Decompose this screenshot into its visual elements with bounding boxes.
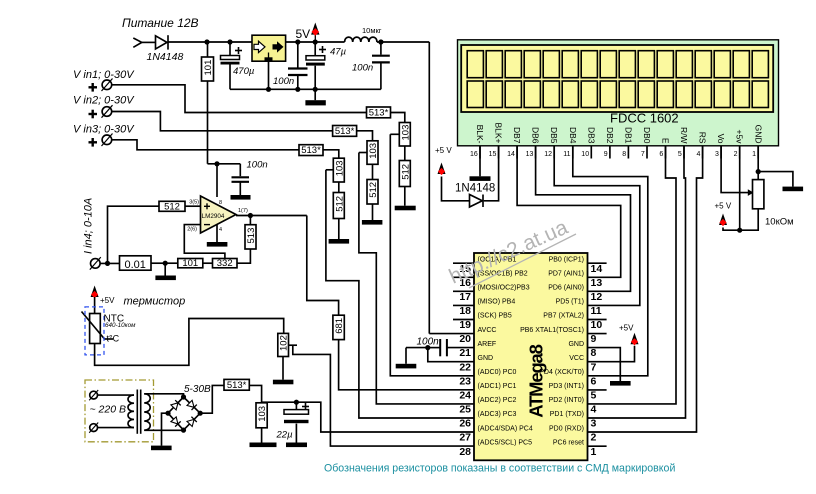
svg-text:DB0: DB0	[642, 127, 652, 144]
capacitor C1 470u plates	[221, 56, 240, 65]
svg-text:22: 22	[459, 361, 471, 373]
junction shunt input	[105, 261, 110, 266]
MCU pin 13	[548, 271, 602, 289]
wire V in1 to R1	[112, 85, 367, 113]
LCD pin 1 GND	[752, 125, 763, 159]
wire R6 to R7	[372, 164, 374, 179]
svg-text:103: 103	[368, 143, 379, 159]
plus mark V in1	[89, 83, 98, 92]
svg-text:GND: GND	[478, 355, 494, 362]
plus mark C1	[235, 47, 242, 54]
MCU pin 3	[550, 411, 597, 429]
svg-text:GND: GND	[568, 341, 584, 348]
wire thermistor tap to ADC5 pin28	[289, 345, 475, 446]
svg-text:10: 10	[591, 319, 603, 331]
svg-text:Питание 12В: Питание 12В	[122, 16, 199, 30]
capacitor C1 470u stems	[229, 42, 231, 56]
svg-text:AREF: AREF	[478, 341, 497, 348]
svg-text:+5v: +5v	[735, 130, 745, 145]
svg-text:6: 6	[659, 151, 663, 158]
svg-text:ATMega8: ATMega8	[526, 344, 547, 417]
svg-text:R/W: R/W	[679, 127, 689, 144]
svg-text:(ADC4/SDA) PC4: (ADC4/SDA) PC4	[478, 425, 533, 432]
svg-text:10мкг: 10мкг	[362, 26, 382, 35]
MCU pin 5	[549, 383, 607, 401]
svg-text:1N4148: 1N4148	[147, 51, 184, 63]
svg-text:DB6: DB6	[531, 127, 541, 144]
ground R15	[250, 428, 277, 447]
LCD pin 6 E	[659, 138, 670, 159]
svg-text:DB7: DB7	[512, 127, 522, 144]
LCD pin 10 DB3	[581, 127, 596, 159]
wire R14 to R15 top	[249, 385, 261, 402]
svg-text:23: 23	[459, 375, 471, 387]
wire VCC node to op-amp pin8	[216, 164, 218, 197]
wire pin7 VCC to +5V flag	[588, 346, 635, 362]
junction bridge bottom	[181, 428, 186, 433]
junction R13 gnd node	[163, 261, 168, 266]
resistor R2 513*	[333, 126, 357, 138]
resistor R4 103	[399, 123, 411, 147]
wire R12 to R11	[237, 249, 250, 263]
capacitor C6 22u plates	[284, 410, 309, 424]
wire V in3 to R3	[112, 140, 299, 150]
svg-text:8: 8	[622, 151, 626, 158]
svg-text:5V: 5V	[296, 27, 311, 41]
inductor L1 10mkg	[345, 37, 377, 42]
svg-text:15: 15	[489, 151, 497, 158]
LCD pin 2 +5v	[734, 130, 745, 159]
junction bridge right	[198, 411, 203, 416]
svg-text:6: 6	[591, 375, 597, 387]
diode D2 1N4148 backlight	[470, 195, 484, 208]
MCU pin 17	[453, 285, 530, 303]
svg-text:103: 103	[334, 160, 345, 176]
potentiometer wiper arrow	[748, 189, 754, 196]
svg-text:1(7): 1(7)	[238, 208, 248, 214]
svg-text:2(6): 2(6)	[187, 227, 197, 233]
wire BLK+ to diode D2	[484, 146, 499, 201]
wire sense node to ADC4 pin27	[262, 402, 474, 432]
regulator U2 5V	[252, 35, 286, 61]
connector V in1	[102, 79, 113, 92]
capacitor C3 47u stems	[314, 42, 316, 56]
wire R10 to op-amp plus	[185, 205, 201, 207]
svg-text:9: 9	[604, 151, 608, 158]
resistor R14 513*	[224, 379, 249, 391]
svg-text:12: 12	[591, 291, 603, 303]
svg-text:1N4148: 1N4148	[455, 183, 495, 195]
capacitor C7 100n AREF	[428, 339, 474, 356]
wire R8 to R9	[338, 182, 340, 193]
svg-text:(ADC5/SCL) PC5: (ADC5/SCL) PC5	[478, 439, 533, 446]
svg-text:13: 13	[526, 151, 534, 158]
svg-text:22µ: 22µ	[276, 430, 294, 441]
svg-text:5: 5	[591, 390, 597, 402]
wire AREF node to pin22 GND	[428, 348, 474, 362]
MCU pin 9	[520, 327, 607, 345]
svg-text:PD6 (AIN0): PD6 (AIN0)	[548, 285, 584, 292]
svg-text:PD7 (AIN1): PD7 (AIN1)	[548, 271, 584, 278]
ground R102	[273, 357, 294, 385]
MCU pin 19	[453, 313, 512, 331]
wire op-amp minus feedback	[184, 225, 225, 259]
svg-text:(ADC0) PC0: (ADC0) PC0	[478, 369, 517, 376]
svg-text:103: 103	[257, 406, 268, 422]
MCU pin 24	[459, 383, 516, 401]
junction bridge left	[165, 411, 170, 416]
svg-text:+5 V: +5 V	[715, 202, 732, 211]
resistor R10 512 input	[159, 201, 185, 212]
svg-text:513: 513	[246, 228, 257, 244]
svg-text:1: 1	[752, 151, 756, 158]
node op-amp VCC junction	[214, 161, 219, 166]
svg-text:PD2 (INT0): PD2 (INT0)	[549, 397, 584, 404]
LCD module FDCC 1602	[458, 40, 779, 146]
svg-text:640-10ком: 640-10ком	[105, 322, 136, 329]
svg-text:1: 1	[591, 446, 597, 458]
wire op-amp output to R681	[307, 216, 339, 316]
svg-text:20: 20	[459, 333, 471, 345]
capacitor C5 100n stem	[239, 164, 241, 176]
svg-text:PB0 (ICP1): PB0 (ICP1)	[549, 256, 584, 263]
LCD pin 15 BLK+	[489, 122, 504, 158]
LCD pin 5 R/W	[678, 127, 689, 159]
svg-text:5-30В: 5-30В	[184, 384, 211, 395]
svg-text:17: 17	[459, 291, 471, 303]
diode D1 1N4148	[156, 35, 169, 49]
resistor R1 513*	[367, 107, 391, 119]
svg-text:47µ: 47µ	[330, 47, 347, 58]
wire 0.01 to gnd node	[151, 262, 165, 264]
junction 47u top	[313, 39, 318, 44]
svg-text:V in3; 0-30V: V in3; 0-30V	[73, 124, 135, 136]
LCD pin 3 Vo	[715, 134, 726, 159]
ground bridge minus	[151, 413, 172, 450]
svg-text:8: 8	[219, 200, 222, 206]
svg-text:I in4; 0-10A: I in4; 0-10A	[83, 198, 95, 254]
wire tap chain1 to ADC0 pin23	[390, 134, 474, 375]
wire R101 down to op-amp VCC node	[207, 81, 209, 164]
resistor R681	[333, 315, 345, 339]
junction AREF	[425, 345, 430, 350]
svg-text:+5V: +5V	[619, 324, 634, 333]
svg-text:PD5 (T1): PD5 (T1)	[556, 299, 584, 306]
svg-text:(MISO) PB4: (MISO) PB4	[478, 299, 516, 306]
wire secondary bottom to bridge	[144, 429, 183, 431]
plus mark C3	[319, 46, 326, 53]
svg-text:513*: 513*	[301, 145, 321, 156]
wire Vo to potentiometer wiper	[721, 146, 748, 193]
svg-text:470µ: 470µ	[233, 66, 255, 77]
svg-text:21: 21	[459, 347, 471, 359]
MCU pin 4	[549, 397, 597, 416]
junction 100n#2 top	[378, 39, 383, 44]
MCU pin 27	[459, 425, 533, 443]
svg-text:11: 11	[591, 305, 602, 317]
ground chain3	[329, 219, 350, 244]
MCU pin 28	[459, 439, 532, 457]
wire R11 to R13	[203, 262, 213, 264]
wire to MCU pin20 AVCC	[429, 333, 474, 335]
svg-text:LM2904: LM2904	[202, 213, 225, 220]
transformer T1 core	[137, 390, 140, 434]
wire RS to MCU pin2	[588, 146, 703, 432]
resistor R102	[278, 333, 290, 356]
svg-text:24: 24	[459, 390, 471, 402]
svg-text:PD4 (XCK/T0): PD4 (XCK/T0)	[539, 369, 584, 376]
wire DB5 to MCU pin11	[554, 146, 640, 306]
svg-text:28: 28	[459, 446, 471, 458]
svg-text:512: 512	[164, 201, 180, 212]
wire AREF node to ground	[396, 348, 428, 369]
wire input to diode D1	[142, 41, 156, 43]
resistor R101 (101) stem	[207, 42, 209, 57]
svg-text:V in2; 0-30V: V in2; 0-30V	[73, 95, 135, 107]
svg-text:512: 512	[368, 182, 379, 198]
svg-text:4: 4	[696, 151, 700, 158]
node A junction	[204, 39, 209, 44]
connector V in2	[102, 105, 113, 118]
capacitor C2 100n stems	[297, 42, 299, 68]
svg-text:Vo: Vo	[716, 134, 726, 144]
resistor R15 103	[256, 403, 268, 428]
svg-text:+5 V: +5 V	[435, 146, 452, 155]
transformer T1 primary	[128, 395, 134, 427]
power flag +5V backlight	[435, 146, 452, 175]
svg-text:11: 11	[563, 151, 570, 158]
svg-text:26: 26	[459, 418, 471, 430]
wire regulator out to 5V node	[285, 41, 345, 43]
capacitor C6 22u stems	[295, 402, 297, 409]
wire output node down to R12	[249, 216, 251, 225]
wire DB7 to MCU pin13	[517, 146, 621, 277]
power flag +5V pot	[715, 202, 732, 227]
svg-text:+5V: +5V	[100, 296, 115, 305]
wire R/W to MCU pin3	[588, 146, 686, 418]
svg-text:DB1: DB1	[623, 127, 633, 144]
wire thermistor to R102	[95, 319, 284, 366]
MCU pin 2	[549, 425, 597, 443]
plus mark V in3	[89, 138, 98, 147]
wire op-amp output	[236, 215, 307, 217]
resistor R6 103	[367, 141, 379, 165]
MCU pin 26	[459, 411, 516, 429]
svg-text:8: 8	[591, 347, 597, 359]
plus mark V in2	[89, 110, 98, 119]
svg-text:PD0 (RXD): PD0 (RXD)	[549, 425, 584, 432]
MCU pin 1	[553, 439, 607, 457]
MCU pin 14	[549, 256, 607, 274]
svg-text:14: 14	[507, 151, 515, 158]
svg-text:9: 9	[591, 333, 597, 345]
svg-text:2: 2	[591, 432, 597, 444]
LCD pin 12 DB5	[544, 127, 559, 159]
MCU pin 20	[459, 327, 496, 345]
wire mains top to primary	[98, 394, 135, 396]
wire DB6 to MCU pin12	[536, 146, 631, 291]
svg-text:~ 220 В: ~ 220 В	[90, 404, 127, 416]
svg-text:513*: 513*	[335, 126, 355, 137]
ground main supply	[305, 89, 325, 105]
svg-text:5: 5	[678, 151, 682, 158]
resistor R8 103	[333, 158, 345, 182]
svg-text:(ADC2) PC2: (ADC2) PC2	[478, 397, 517, 404]
svg-text:18: 18	[459, 305, 471, 317]
svg-text:25: 25	[459, 404, 471, 416]
svg-text:(ADC3) PC3: (ADC3) PC3	[478, 411, 517, 418]
watermark c2.at.ua	[446, 216, 576, 289]
ground C5	[231, 182, 251, 200]
svg-text:GND: GND	[753, 125, 763, 144]
svg-text:DB4: DB4	[568, 127, 578, 144]
resistor R11 332	[213, 258, 238, 269]
MCU pin 22	[459, 355, 493, 373]
wire LCD GND pin down	[757, 146, 759, 180]
wire R681 to ADC1 pin24	[339, 340, 474, 390]
junction bridge top	[181, 394, 186, 399]
junction 22u tap	[294, 400, 299, 405]
MCU pin 23	[459, 369, 516, 387]
svg-text:681: 681	[334, 318, 345, 334]
svg-text:100n: 100n	[247, 160, 268, 171]
resistor R3 513*	[299, 145, 323, 157]
LCD pin 11 DB4	[563, 127, 578, 159]
svg-text:(MOSI/OC2)PB3: (MOSI/OC2)PB3	[478, 285, 530, 292]
svg-text:100n: 100n	[352, 63, 373, 74]
wire secondary top to bridge	[144, 394, 183, 397]
svg-text:FDCC 1602: FDCC 1602	[610, 111, 679, 126]
ground LCD BLK-	[470, 146, 491, 181]
wire flag to thermistor	[94, 297, 96, 314]
svg-text:0.01: 0.01	[124, 259, 145, 271]
power flag 5V	[296, 23, 320, 43]
svg-text:термистор: термистор	[124, 296, 186, 308]
MCU pin 18	[453, 299, 515, 317]
svg-text:BLK+: BLK+	[494, 122, 504, 143]
svg-text:3: 3	[591, 418, 597, 430]
thermistor RT NTC	[82, 312, 114, 344]
svg-text:PB7 (XTAL2): PB7 (XTAL2)	[543, 313, 584, 320]
svg-text:AVCC: AVCC	[478, 327, 497, 334]
MCU pin 7	[569, 355, 596, 373]
wire 5V rail down to AVCC	[428, 42, 430, 334]
MCU pin 12	[548, 285, 602, 303]
junction regulator gnd	[266, 87, 271, 92]
MCU pin 10	[543, 313, 606, 331]
svg-text:19: 19	[459, 319, 471, 331]
connector V in3	[102, 134, 113, 147]
svg-text:(ADC1) PC1: (ADC1) PC1	[478, 383, 517, 390]
transformer dashed box	[85, 380, 154, 442]
ground shunt amp	[155, 263, 176, 280]
LCD pin 7 DB0	[641, 127, 652, 159]
wire regulator gnd pin down	[268, 60, 270, 89]
svg-text:E: E	[661, 138, 671, 144]
resistor R5 512	[399, 161, 411, 187]
svg-text:DB2: DB2	[605, 127, 615, 144]
svg-text:Обозначения резисторов показан: Обозначения резисторов показаны в соотве…	[324, 463, 675, 475]
svg-text:7: 7	[591, 361, 597, 373]
junction 100n#1 top	[295, 39, 300, 44]
wire pin8 GND to ground	[588, 348, 631, 386]
wire mains bottom to primary	[98, 427, 135, 429]
svg-text:332: 332	[217, 258, 233, 269]
svg-text:PD1 (TXD): PD1 (TXD)	[550, 411, 584, 418]
connector mains top	[89, 390, 98, 400]
resistor R12 513 feedback	[245, 225, 257, 249]
capacitor C3 47u plates	[306, 56, 325, 66]
MCU pin 15	[453, 256, 517, 274]
MCU pin 11	[556, 299, 602, 317]
wire L1 to rail corner	[377, 41, 429, 43]
ground op-amp pin4	[207, 224, 228, 246]
op-amp U1 LM2904	[187, 196, 248, 233]
bridge rectifier diodes	[168, 397, 200, 430]
svg-text:RS: RS	[698, 132, 708, 144]
svg-text:102: 102	[279, 335, 290, 351]
resistor R7 512	[367, 180, 379, 205]
MCU pin 25	[459, 397, 516, 416]
power flag +5V VCC	[619, 324, 639, 346]
svg-text:7: 7	[641, 151, 645, 158]
svg-text:14: 14	[591, 263, 603, 275]
wire V in2 to R2	[112, 112, 333, 131]
svg-text:DB5: DB5	[549, 127, 559, 144]
junction bottom rail at 100n#1	[295, 87, 300, 92]
wire tap chain3 to ADC3 pin26	[326, 170, 474, 418]
LCD pin 8 DB1	[622, 127, 633, 159]
wire E to MCU pin4	[588, 146, 677, 404]
svg-text:512: 512	[400, 164, 411, 180]
capacitor C2 100n plates	[288, 69, 308, 76]
svg-text:101: 101	[182, 258, 198, 269]
wire DB4 to MCU pin6	[573, 146, 648, 376]
svg-text:PC6 reset: PC6 reset	[553, 439, 584, 446]
MCU U3 ATMega8	[474, 253, 588, 460]
svg-text:13: 13	[591, 277, 603, 289]
svg-text:DB3: DB3	[586, 127, 596, 144]
potentiometer RP 10kOm	[753, 180, 764, 209]
resistor R9 512	[333, 193, 345, 219]
LCD pin 13 DB6	[526, 127, 541, 159]
svg-text:100n: 100n	[273, 76, 294, 87]
thermistor dashed box	[85, 307, 104, 355]
wire LCD +5v pin down	[739, 146, 741, 230]
svg-text:101: 101	[203, 60, 214, 76]
svg-text:16: 16	[470, 151, 478, 158]
LCD pin 9 DB2	[604, 127, 615, 159]
wire R1 to R4 top	[391, 113, 405, 123]
svg-text:103: 103	[400, 125, 411, 141]
wire tap chain2 to ADC2 pin25	[359, 153, 474, 404]
wire R3 to R8 top	[323, 150, 339, 158]
svg-text:(SCK) PB5: (SCK) PB5	[478, 313, 512, 320]
svg-text:PB6 XTAL1(TOSC1): PB6 XTAL1(TOSC1)	[520, 327, 584, 334]
connector I in4	[90, 257, 101, 270]
LCD pin 4 RS	[696, 132, 707, 159]
capacitor C4 100n stems	[380, 42, 382, 55]
MCU pin 8	[568, 341, 596, 359]
svg-text:27: 27	[459, 432, 471, 444]
resistor Rs 0.01 shunt	[120, 256, 152, 271]
MCU pin 16	[453, 271, 528, 289]
wire R13 to gnd node	[165, 262, 178, 264]
svg-text:10: 10	[581, 151, 589, 158]
svg-text:513*: 513*	[227, 380, 247, 391]
wire R2 to R6 top	[357, 131, 373, 141]
wire shunt node up to R10	[108, 206, 160, 263]
